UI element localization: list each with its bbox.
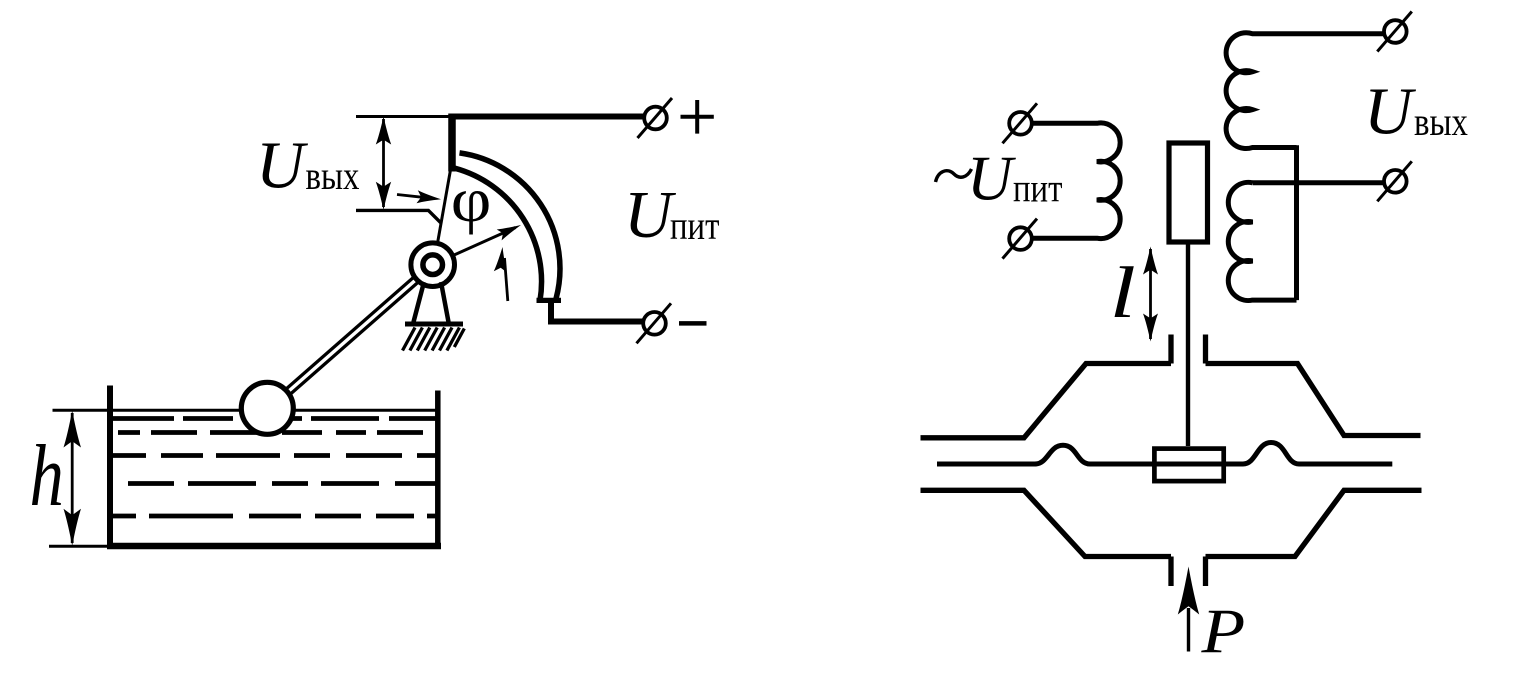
svg-text:l: l — [1110, 253, 1136, 333]
svg-text:U: U — [1364, 75, 1417, 149]
secondary mid wire — [1253, 180, 1385, 185]
dimension arrow Uvyx — [382, 119, 385, 207]
chamber bottom right — [1206, 490, 1422, 556]
collar top right — [1203, 335, 1208, 364]
terminal + — [644, 107, 667, 130]
core rod — [1186, 245, 1190, 447]
membrane mass rect — [1154, 449, 1223, 482]
wire to + terminal — [449, 114, 644, 120]
label tilde — [936, 169, 972, 182]
angle arrow B — [505, 258, 508, 301]
dimension l — [1149, 249, 1152, 339]
svg-text:U: U — [256, 129, 309, 203]
svg-text:вых: вых — [1414, 99, 1468, 144]
dimension arrow h — [71, 413, 74, 543]
svg-text:U: U — [967, 144, 1016, 214]
plus sign — [681, 100, 714, 134]
potentiometer arc outer — [460, 153, 560, 299]
water surface line — [53, 409, 438, 412]
collar bottom left — [1168, 557, 1173, 587]
support hatching — [403, 328, 465, 351]
chamber top right — [1206, 364, 1421, 436]
P arrow — [1187, 608, 1190, 652]
support base — [405, 322, 463, 327]
potentiometer arc inner — [455, 168, 542, 300]
water dashes row 3 — [112, 453, 436, 458]
minus sign — [679, 321, 707, 326]
primary terminal bottom — [1009, 227, 1032, 250]
terminal - — [643, 312, 666, 335]
water dashes row 5 — [112, 514, 436, 519]
angle arrow A — [397, 195, 432, 199]
wire to - terminal — [548, 301, 644, 322]
dimension line bottom Uvyx — [356, 210, 442, 223]
pivot outer circle — [411, 243, 455, 287]
chamber top left — [921, 364, 1172, 438]
primary terminal top — [1009, 112, 1032, 135]
water dashes row 1 — [112, 416, 436, 421]
pivot inner circle — [423, 255, 443, 275]
collar bottom right — [1203, 557, 1208, 587]
primary coil — [1033, 123, 1120, 239]
dimension extension bottom h — [49, 545, 107, 548]
potentiometer end cap — [537, 298, 562, 303]
float — [241, 382, 293, 434]
wiper line 2 with arrow — [434, 228, 516, 265]
tank left wall — [107, 386, 113, 549]
secondary terminal mid — [1384, 170, 1407, 193]
svg-text:h: h — [30, 428, 64, 525]
wiper line 1 — [434, 167, 451, 263]
tank bottom — [107, 543, 441, 550]
potentiometer wiper lead — [448, 114, 456, 172]
svg-text:пит: пит — [670, 203, 719, 248]
collar top left — [1168, 335, 1173, 364]
water dashes row 2 — [118, 430, 436, 435]
secondary terminal top — [1384, 20, 1407, 43]
secondary bottom coil — [1228, 182, 1296, 300]
secondary top coil — [1226, 33, 1384, 149]
core — [1169, 143, 1208, 242]
support legs — [414, 282, 449, 322]
dimension extension line top Uvyx — [356, 115, 452, 118]
membrane — [937, 443, 1392, 465]
secondary bus — [1294, 145, 1299, 300]
tank right wall — [435, 391, 441, 549]
float rod — [270, 268, 435, 413]
chamber bottom left — [921, 490, 1172, 556]
svg-text:пит: пит — [1013, 165, 1062, 210]
svg-text:вых: вых — [306, 153, 360, 198]
svg-text:U: U — [624, 178, 677, 252]
water dashes row 4 — [118, 481, 436, 486]
svg-text:P: P — [1200, 595, 1245, 667]
